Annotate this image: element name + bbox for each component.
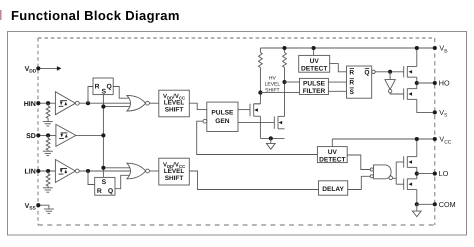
pin VB <box>433 46 437 50</box>
node VSS <box>36 203 40 207</box>
VB rail <box>260 47 434 49</box>
block U6 VDD/VCC level shift high <box>159 90 190 117</box>
wire pulse filter out R <box>328 81 346 83</box>
svg-text:GEN: GEN <box>215 118 230 125</box>
VCC rail <box>332 138 435 140</box>
svg-text:LEVEL: LEVEL <box>164 168 185 175</box>
wire G1 out to level shift <box>149 102 158 104</box>
node COM junction <box>415 202 419 206</box>
svg-text:VS: VS <box>439 108 448 119</box>
wire UV1 shutdown into pulse gen <box>197 121 318 154</box>
op-amp U2 SD schmitt buffer <box>56 124 76 146</box>
wire UV1 to VB rail <box>313 48 315 55</box>
latch U11 high-side RS latch <box>347 66 372 98</box>
node LIN-dashed <box>36 169 40 173</box>
wire gate G2 upper input <box>103 167 132 169</box>
svg-text:Q: Q <box>106 84 111 91</box>
svg-text:VSS: VSS <box>25 203 37 212</box>
pin VS <box>433 110 437 114</box>
node HO junction <box>415 81 419 85</box>
latch U5 RS low-side input latch <box>95 177 115 195</box>
op-amp U1 HIN schmitt buffer <box>55 92 75 115</box>
svg-text:R: R <box>97 188 102 195</box>
node HIN-resistor <box>46 101 50 105</box>
wire M4 source to VS <box>417 99 435 112</box>
svg-text:COM: COM <box>439 200 456 209</box>
outer border <box>8 32 467 236</box>
svg-text:PULSE: PULSE <box>211 110 234 117</box>
wire LIN input <box>38 170 55 172</box>
svg-text:DELAY: DELAY <box>322 186 344 193</box>
op-amp U3 LIN schmitt buffer <box>55 160 75 183</box>
title: Functional Block Diagram <box>11 8 180 23</box>
wire level shift low to delay <box>189 171 318 190</box>
pin LIN <box>25 169 36 176</box>
resistor R-LIN pulldown <box>47 171 49 174</box>
wire latch U5 Q to gate G2 <box>115 175 132 188</box>
wire latch U4 Q to gate G1 <box>113 87 132 99</box>
svg-text:HIN: HIN <box>24 101 36 108</box>
wire UV2 out to nand <box>347 155 370 170</box>
transistor M4 HO pull-down <box>403 88 405 99</box>
svg-text:SHIFT: SHIFT <box>165 107 184 114</box>
svg-text:DETECT: DETECT <box>319 156 345 163</box>
node LIN-resistor <box>46 169 50 173</box>
wire SD buffered <box>76 134 104 136</box>
wire latch Q to driver <box>375 71 404 73</box>
node LIN-latch-branch <box>86 169 90 173</box>
resistor R2 pull-up right <box>284 48 286 53</box>
wire reset node to pulse filter <box>285 81 300 83</box>
pin VDD <box>25 66 37 75</box>
wire pulse gen out A to M1 gate <box>238 109 250 111</box>
pin HIN <box>24 101 36 108</box>
svg-text:Functional Block Diagram: Functional Block Diagram <box>11 8 180 23</box>
wire HIN input <box>38 102 55 104</box>
svg-text:Q: Q <box>108 188 113 195</box>
wire latch U4 R input <box>88 87 93 104</box>
ground VSS <box>44 208 54 210</box>
node reset <box>282 80 286 84</box>
pin SD <box>26 133 36 140</box>
svg-text:VCC: VCC <box>439 135 451 146</box>
svg-text:FILTER: FILTER <box>303 88 326 95</box>
wire gate G1 lower input <box>103 106 132 108</box>
transistor M6 LO pull-down <box>403 179 405 190</box>
node SD-resistor <box>46 133 50 137</box>
svg-text:R: R <box>95 84 100 91</box>
latch U4 RS high-side input latch <box>93 78 113 95</box>
ground SD resistor <box>43 150 53 152</box>
wire HIN buffered <box>79 102 132 104</box>
gate G2 NOR low side <box>127 163 146 179</box>
node R2 top <box>282 46 286 50</box>
node M3-VB <box>415 46 419 50</box>
wire G2 out to level shift <box>149 170 158 172</box>
transistor M1 set pulse <box>254 103 261 105</box>
wire UV2 to VCC rail <box>331 139 333 147</box>
wire M5 source to LO <box>416 167 418 173</box>
ground VS triangle <box>270 138 272 143</box>
node VS rail <box>269 136 273 140</box>
wire VSS to ground <box>38 205 49 209</box>
wire inverter to M4 gate <box>390 93 404 94</box>
svg-text:R: R <box>349 69 354 76</box>
svg-text:SHIFT: SHIFT <box>165 175 184 182</box>
svg-text:UV: UV <box>328 149 338 156</box>
wire SD riser <box>102 95 104 178</box>
wire M6 source to COM <box>416 190 418 205</box>
node VDD <box>36 66 40 70</box>
ground LIN resistor <box>43 187 53 189</box>
wire M3 source to HO <box>416 77 418 83</box>
wire SD input <box>38 134 56 136</box>
svg-text:S: S <box>349 89 354 96</box>
svg-text:DETECT: DETECT <box>301 66 327 73</box>
pin LO <box>433 172 437 176</box>
wire M3 drain to VB <box>416 48 418 66</box>
resistor R-SD pulldown <box>47 135 49 138</box>
wire level shift to pulse gen <box>189 103 207 109</box>
node HIN-dashed <box>36 101 40 105</box>
svg-text:Q: Q <box>364 69 369 76</box>
block U8 pulse gen <box>207 102 238 131</box>
block U13 UV detect low side <box>317 147 347 163</box>
block U14 delay <box>319 181 348 195</box>
pin VCC <box>433 137 437 141</box>
transistor M3 HO pull-up <box>403 66 405 77</box>
wire LIN buffered <box>79 170 132 172</box>
node set <box>258 91 262 95</box>
inverter U12 <box>385 80 395 90</box>
svg-text:UV: UV <box>310 58 320 65</box>
wire G3 out split to gates <box>393 177 397 179</box>
wire VS pulse rail <box>260 137 284 139</box>
transistor M5 LO pull-up <box>403 156 405 167</box>
wire latch U5 R input <box>88 171 95 185</box>
svg-text:HO: HO <box>439 79 450 88</box>
node riser-SD <box>101 133 105 137</box>
pin COM <box>433 202 437 206</box>
svg-text:R: R <box>349 80 354 87</box>
resistor R1 pull-up left <box>259 48 261 53</box>
resistor R-HIN pulldown <box>47 103 49 106</box>
wire M6 drain to LO <box>416 174 418 179</box>
red edge tick <box>0 10 2 20</box>
wire VDD arrow <box>38 67 57 69</box>
svg-text:VDD: VDD <box>25 66 37 75</box>
wire pulse filter out S <box>328 90 346 92</box>
block U7 VDD/VCC level shift low <box>159 158 190 185</box>
ground HIN resistor <box>43 121 53 123</box>
pin HO <box>433 81 437 85</box>
node SD-dashed <box>36 133 40 137</box>
node LO junction <box>415 172 419 176</box>
wire set node to pulse filter <box>260 92 299 94</box>
svg-text:S: S <box>102 179 107 186</box>
dashed IC boundary <box>38 38 435 225</box>
wire M4 drain to HO <box>416 83 418 89</box>
wire pulse gen out B to M2 gate <box>238 122 274 124</box>
node M5-VCC <box>415 137 419 141</box>
svg-text:VB: VB <box>439 44 448 55</box>
block U10 pulse filter <box>300 78 329 94</box>
text HV LEVEL SHIFT <box>265 76 281 94</box>
wire HO <box>417 82 435 84</box>
wire delay out to nand <box>348 176 371 189</box>
node HIN-latch-branch <box>86 101 90 105</box>
ground COM triangle <box>416 204 418 211</box>
node UV1-VB <box>312 46 316 50</box>
pin VSS <box>25 203 37 212</box>
wire UV1 out to latch R <box>330 64 347 72</box>
wire LO <box>417 173 435 175</box>
svg-text:LEVEL: LEVEL <box>164 100 185 107</box>
svg-text:LO: LO <box>439 169 449 178</box>
svg-text:PULSE: PULSE <box>303 81 326 88</box>
node driver split <box>388 70 392 74</box>
node riser-G2 <box>101 166 105 170</box>
node riser-G1 <box>101 105 105 109</box>
gate G1 NOR high side <box>127 95 146 111</box>
transistor M2 reset pulse <box>273 116 275 128</box>
svg-text:LIN: LIN <box>25 169 36 176</box>
block U9 UV detect high side <box>299 55 330 72</box>
svg-text:SD: SD <box>26 133 36 140</box>
gate G3 AND w/ inverted inputs <box>374 165 392 179</box>
wire to inverter <box>389 72 391 80</box>
wire COM <box>417 203 435 205</box>
wire M5 drain to VCC <box>416 139 418 157</box>
